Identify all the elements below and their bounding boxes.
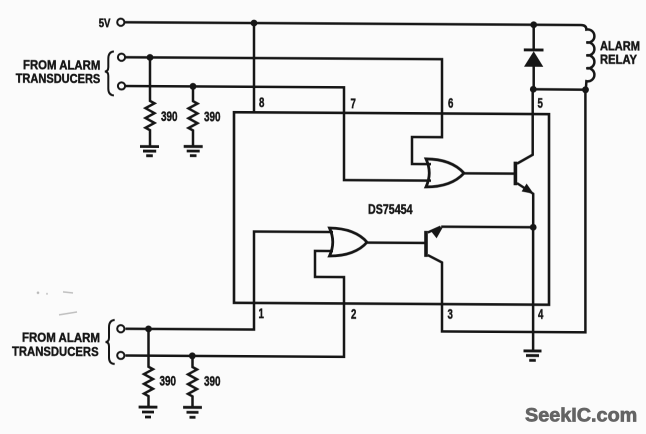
svg-text:TRANSDUCERS: TRANSDUCERS (12, 344, 99, 360)
svg-text:3: 3 (448, 306, 454, 322)
svg-text:390: 390 (204, 109, 221, 124)
svg-text:1: 1 (259, 305, 265, 321)
svg-text:7: 7 (351, 95, 357, 111)
svg-text:6: 6 (448, 95, 454, 111)
svg-text:390: 390 (204, 374, 221, 389)
svg-text:5: 5 (538, 95, 544, 111)
svg-text:390: 390 (161, 109, 178, 124)
svg-text:TRANSDUCERS: TRANSDUCERS (16, 70, 101, 86)
svg-text:RELAY: RELAY (600, 52, 638, 66)
svg-text:8: 8 (259, 94, 265, 110)
svg-text:5V: 5V (99, 16, 111, 30)
svg-text:390: 390 (160, 373, 177, 388)
svg-text:ALARM: ALARM (600, 39, 640, 53)
svg-text:4: 4 (538, 306, 544, 322)
svg-text:2: 2 (351, 305, 357, 321)
svg-text:DS75454: DS75454 (368, 202, 413, 217)
svg-text:SeekIC.com: SeekIC.com (525, 406, 637, 427)
